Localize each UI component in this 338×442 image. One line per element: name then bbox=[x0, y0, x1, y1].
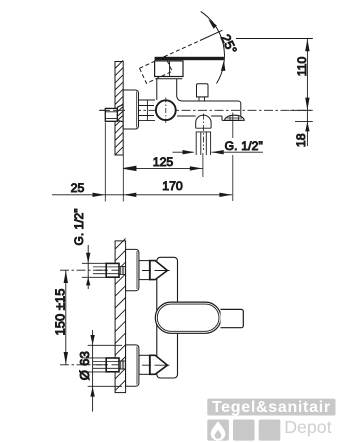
handle stick (plan view) bbox=[221, 309, 244, 327]
svg-text:G. 1/2": G. 1/2" bbox=[225, 139, 263, 153]
leader line to 25deg label bbox=[200, 30, 223, 40]
logo Tegel&sanitair Depot bbox=[207, 399, 335, 441]
wall section (plan view) bbox=[115, 239, 126, 393]
escutcheon flange (side view) bbox=[123, 90, 138, 129]
bottom escutcheon (plan view) bbox=[126, 345, 139, 386]
top cone nut (plan view) bbox=[150, 261, 168, 280]
dimension 150 +-15 bbox=[64, 270, 68, 365]
svg-text:125: 125 bbox=[153, 155, 174, 169]
wire: bottom inlet centerline (plan view) bbox=[60, 364, 172, 366]
dimension 25 and 170 bbox=[52, 123, 232, 202]
faucet body column (plan view) bbox=[157, 257, 178, 378]
body capsule (plan view) bbox=[155, 302, 221, 333]
svg-text:G. 1/2": G. 1/2" bbox=[72, 209, 86, 246]
svg-text:110: 110 bbox=[295, 57, 309, 77]
bottom inlet hex nut (plan view) bbox=[106, 358, 119, 372]
faucet body (side view) bbox=[177, 95, 241, 120]
inlet cone into wall (side view) bbox=[117, 104, 123, 121]
wire: body centerline (side view) bbox=[99, 109, 313, 111]
top escutcheon (plan view) bbox=[126, 249, 139, 290]
svg-text:Depot: Depot bbox=[284, 417, 332, 437]
dimension G. 1/2" (side view) bbox=[172, 150, 263, 154]
svg-text:170: 170 bbox=[162, 179, 183, 193]
handle neck (side view) bbox=[157, 79, 183, 100]
svg-text:18: 18 bbox=[294, 133, 308, 147]
cartridge cap circle (side view) bbox=[156, 98, 176, 124]
svg-text:25: 25 bbox=[71, 181, 85, 195]
dimension G. 1/2" (plan view leader) bbox=[86, 245, 90, 289]
inlet hex nut (side view) bbox=[105, 108, 117, 121]
bottom eccentric fitting (plan view) bbox=[139, 355, 150, 374]
bottom inlet threads into wall (plan view) bbox=[119, 361, 125, 369]
svg-text:Ø 63: Ø 63 bbox=[77, 351, 92, 380]
diverter knob (side view) bbox=[197, 84, 209, 101]
spout cylinder and thread (side view) bbox=[196, 123, 211, 156]
top inlet threads into wall (plan view) bbox=[119, 266, 125, 274]
top inlet pipe (plan view) bbox=[82, 263, 106, 277]
top eccentric fitting (plan view) bbox=[139, 261, 150, 280]
bottom cone nut (plan view) bbox=[150, 355, 168, 374]
dimension 110 and 18 (right side) bbox=[236, 39, 313, 147]
spout outlet dome (side view) bbox=[196, 115, 211, 122]
wire: centerline overlay across side-view inlet nut bbox=[96, 110, 170, 365]
dimension 125 bbox=[123, 156, 202, 202]
bottom inlet pipe (plan view) bbox=[82, 358, 106, 372]
handle base block (side view) bbox=[155, 61, 183, 77]
lever raised 25 deg dashed (side view) bbox=[140, 41, 201, 84]
arc 25 degrees bbox=[201, 11, 226, 83]
svg-text:Tegel&sanitair: Tegel&sanitair bbox=[212, 399, 331, 416]
wire: extension line from check valve center down bbox=[232, 113, 234, 202]
check valve dome hatched (side view) bbox=[225, 115, 245, 120]
wire: top inlet centerline (plan view) bbox=[60, 269, 172, 271]
svg-text:150 ±15: 150 ±15 bbox=[52, 289, 67, 336]
dimension diameter 63 bbox=[88, 330, 122, 412]
wire: spout centerline bbox=[202, 114, 204, 151]
union rings between flange and cartridge (side view) bbox=[139, 100, 155, 121]
top inlet hex nut (plan view) bbox=[106, 263, 119, 277]
wall section (side view) bbox=[115, 60, 123, 155]
lever bar closed position (side view) bbox=[155, 57, 224, 60]
